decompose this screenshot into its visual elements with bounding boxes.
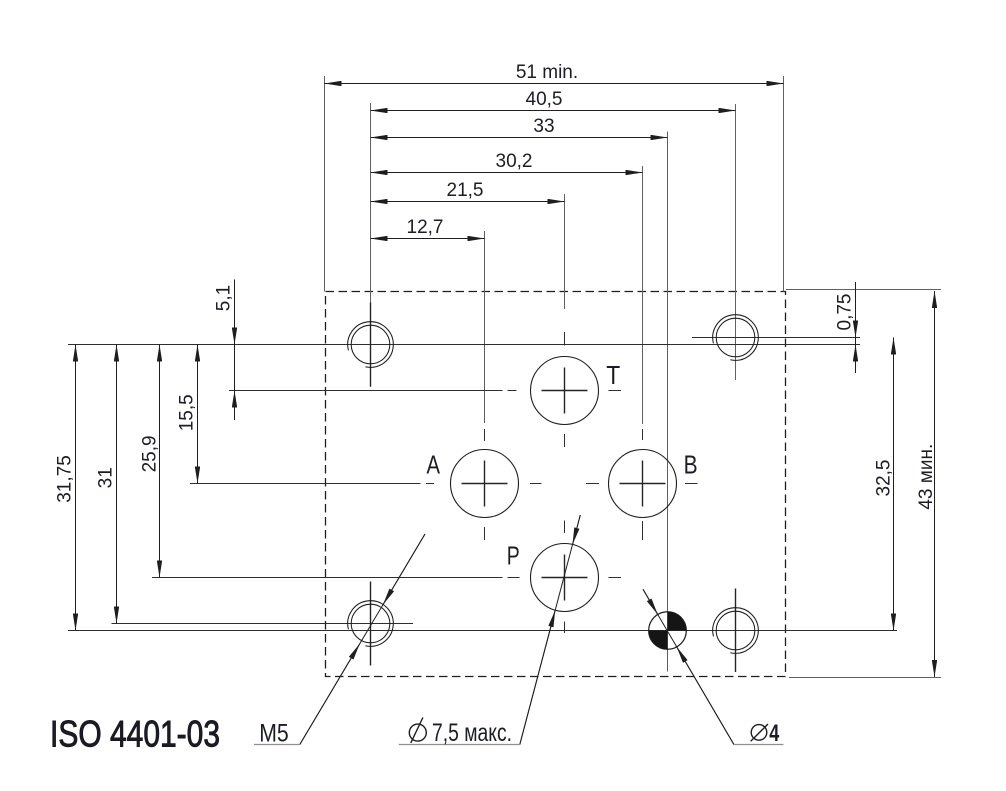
dimension 30,2: [371, 172, 643, 174]
centerline row F2 hole: [692, 337, 860, 339]
svg-text:P: P: [507, 540, 520, 570]
svg-text:ISO 4401-03: ISO 4401-03: [50, 714, 220, 755]
dimension 31,75: [75, 345, 77, 631]
port B vertical centerline dashes: [642, 429, 644, 440]
hole bottom-right vertical centerline: [735, 589, 737, 673]
svg-text:0,75: 0,75: [835, 294, 856, 331]
svg-text:B: B: [684, 450, 698, 480]
svg-text:T: T: [606, 360, 620, 390]
extension line 12.7 to port A: [484, 231, 486, 423]
port T circle: [531, 357, 599, 425]
centerline row A B: [190, 483, 421, 485]
svg-text:M5: M5: [259, 720, 289, 748]
extension line 30.2 to port B: [642, 166, 644, 424]
dimension 40,5: [371, 110, 736, 112]
locating pin hole (quadrant symbol): [649, 612, 687, 650]
svg-text:32,5: 32,5: [874, 460, 895, 497]
centerline row bottom: [68, 630, 897, 632]
extension line 33 to pin hole: [667, 132, 669, 672]
svg-text:43 мин.: 43 мин.: [916, 444, 937, 510]
port P circle: [531, 544, 599, 612]
port A center cross: [484, 461, 486, 507]
svg-text:30,2: 30,2: [496, 151, 533, 172]
dimension 43 min (cyr): [934, 291, 936, 677]
leader pin hole diameter 4: [643, 589, 784, 744]
centerline row P: [152, 577, 503, 579]
port T center cross: [564, 368, 566, 414]
svg-text:51 min.: 51 min.: [516, 62, 578, 83]
dimension 15,5: [197, 345, 199, 484]
leader M5 thread callout: [254, 534, 425, 745]
extension line 51min left: [324, 76, 326, 292]
port P vertical centerline dashes: [564, 521, 566, 534]
svg-text:33: 33: [533, 116, 554, 137]
plate outline (dashed mounting surface): [326, 292, 786, 677]
hole bottom-left vertical centerline: [370, 582, 372, 666]
port A vertical centerline dashes: [484, 429, 486, 441]
svg-text:7,5 макс.: 7,5 макс.: [432, 719, 512, 747]
svg-text:5,1: 5,1: [214, 285, 235, 311]
extension line hole column F1: [370, 103, 372, 387]
extension stub 43min top: [786, 289, 941, 291]
mounting hole bottom-left: [348, 601, 394, 647]
label diameter 4: [751, 724, 768, 741]
extension line 21.5 to port T: [564, 194, 566, 309]
svg-text:40,5: 40,5: [526, 89, 563, 110]
port T vertical centerline dashes: [564, 332, 566, 346]
centerline row bottom-left hole: [112, 623, 414, 625]
svg-text:21,5: 21,5: [447, 180, 484, 201]
label diameter 7,5 max: [409, 718, 426, 743]
leader port diameter 7,5 max: [399, 515, 581, 745]
dimension 5,1 (arrows outside): [234, 280, 236, 421]
dimension 31: [116, 345, 118, 624]
extension line 40.5 to hole F2: [735, 104, 737, 380]
dimension 21,5: [371, 201, 565, 203]
svg-text:15,5: 15,5: [177, 394, 198, 431]
dimension 51 min.: [325, 83, 784, 85]
port B circle: [609, 450, 677, 518]
port P center cross: [564, 555, 566, 601]
extension stub 43min bottom: [789, 677, 941, 679]
hole F1 top-left vertical centerline: [370, 303, 372, 387]
svg-text:A: A: [427, 450, 441, 480]
dimension 33: [371, 137, 668, 139]
centerline row F1 holes: [68, 344, 860, 346]
mounting hole F1 top-left: [348, 322, 394, 368]
port A circle: [451, 450, 519, 518]
extension line 51min right: [783, 76, 785, 292]
dimension 32,5: [893, 338, 895, 631]
port B center cross: [642, 461, 644, 507]
dimension 25,9: [159, 345, 161, 578]
mounting hole F2 top-right: [713, 315, 759, 361]
svg-text:25,9: 25,9: [139, 435, 160, 472]
svg-text:12,7: 12,7: [407, 217, 444, 238]
dimension 0,75 (arrows outside): [855, 282, 857, 373]
svg-text:4: 4: [769, 720, 779, 747]
centerline row T: [229, 390, 503, 392]
dimension 12,7: [371, 238, 485, 240]
svg-text:31,75: 31,75: [54, 455, 75, 503]
svg-text:31: 31: [96, 467, 117, 488]
mounting hole bottom-right: [713, 608, 759, 654]
